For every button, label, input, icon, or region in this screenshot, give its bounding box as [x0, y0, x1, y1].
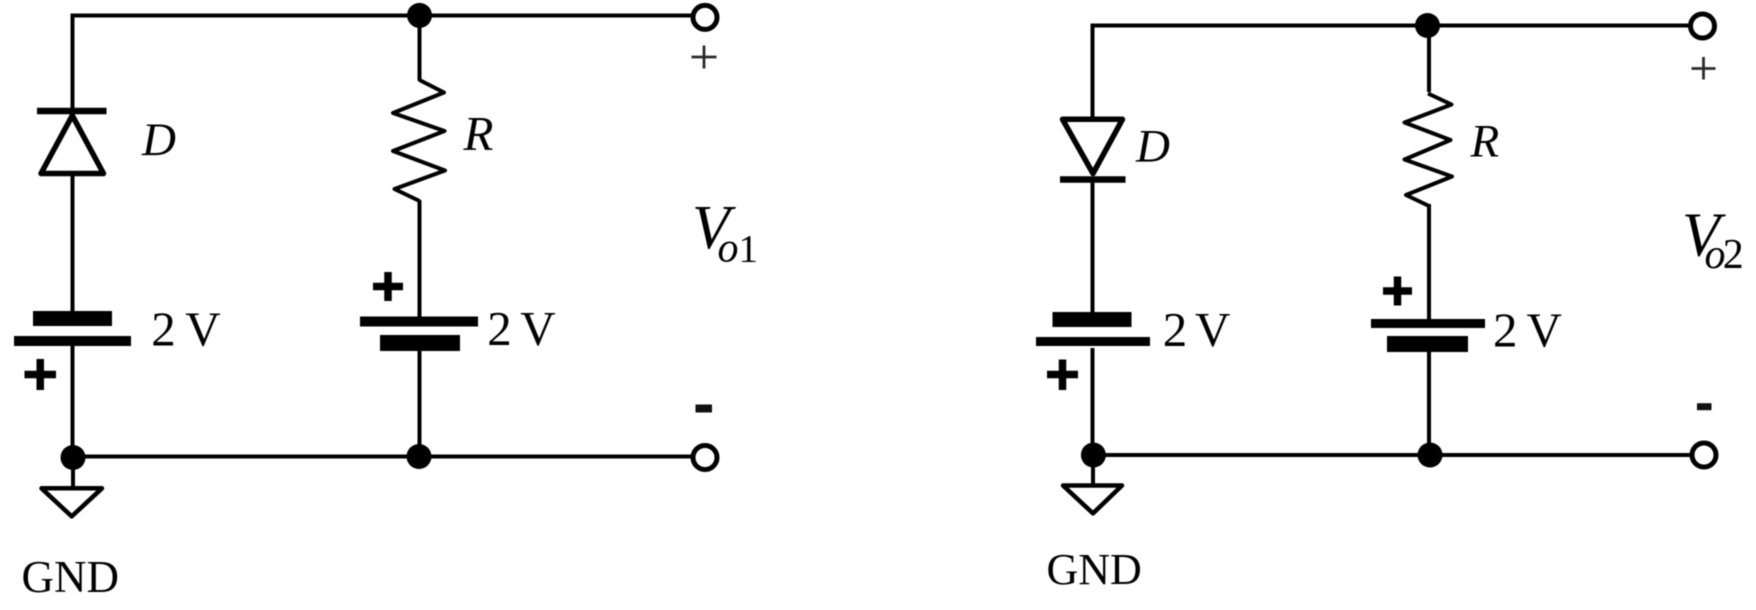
svg-text:R: R [463, 106, 494, 161]
svg-text:R: R [1470, 116, 1500, 168]
svg-text:D: D [1135, 121, 1170, 173]
svg-text:V: V [1195, 302, 1230, 357]
svg-text:2: 2 [1723, 232, 1744, 278]
svg-text:V: V [1527, 303, 1562, 358]
svg-text:2: 2 [1493, 303, 1518, 358]
svg-text:2: 2 [1163, 302, 1188, 357]
svg-text:GND: GND [1047, 545, 1142, 594]
svg-text:V: V [185, 302, 220, 357]
svg-text:o: o [718, 226, 739, 272]
svg-text:1: 1 [739, 228, 759, 271]
svg-text:2: 2 [487, 301, 512, 356]
svg-text:V: V [520, 301, 555, 356]
svg-text:GND: GND [22, 552, 120, 602]
svg-text:D: D [141, 114, 176, 166]
svg-text:2: 2 [151, 302, 176, 357]
